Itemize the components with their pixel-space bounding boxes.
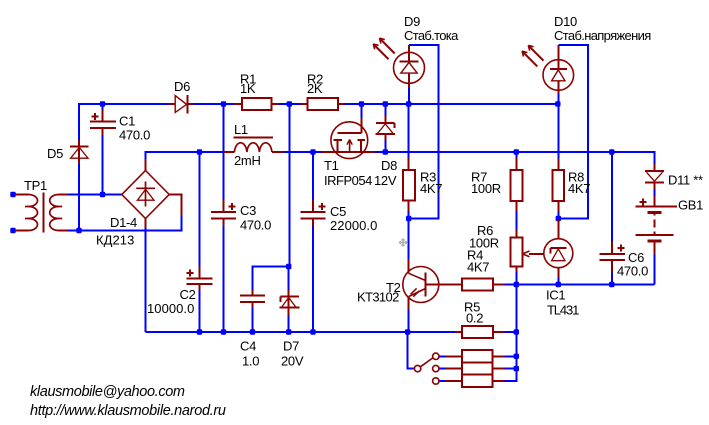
resistor R1: [233, 98, 278, 110]
node C6 top junction: [609, 149, 614, 154]
resistor R3: [403, 158, 415, 211]
node T1 gate junction: [359, 101, 364, 106]
wire switch row1 right stub: [505, 355, 517, 357]
wire bridge top stub: [145, 151, 147, 159]
wire C4 bottom: [252, 308, 254, 333]
svg-text:22000.0: 22000.0: [330, 218, 377, 233]
wire clamp horizontal y=266.5: [253, 266, 290, 268]
resistor R8: [552, 159, 564, 212]
capacitor C4: [240, 290, 265, 308]
resistor R7: [511, 158, 523, 211]
node clamp top junction: [287, 101, 292, 106]
shunt selector resistor stack: [446, 350, 505, 387]
svg-text:1.0: 1.0: [242, 354, 259, 369]
wire C1 bottom to AC top node: [102, 135, 104, 195]
svg-text:Стаб.тока: Стаб.тока: [404, 28, 459, 43]
transistor T2: [403, 259, 462, 310]
wire D8 bottom stub: [384, 141, 386, 153]
node C4 ground junction: [250, 329, 255, 334]
wire T1 gate stub: [361, 103, 363, 118]
resistor R4: [462, 278, 505, 290]
svg-text:2K: 2K: [307, 81, 323, 96]
wire T2 collector stub: [408, 219, 410, 259]
wire C2 branch bottom: [199, 290, 201, 333]
wire ground rail y=332: [146, 331, 456, 333]
svg-text:470.0: 470.0: [240, 218, 271, 233]
wire switch row3 left stub: [439, 380, 448, 382]
zener D7: [279, 290, 299, 315]
wire R7 top stub: [515, 151, 517, 158]
wire D7 top stub: [288, 268, 290, 291]
wire D9 bottom stub: [408, 88, 410, 104]
svg-text:D5: D5: [47, 146, 63, 161]
wire D10 loop: [558, 45, 588, 219]
inductor L1: [224, 138, 284, 153]
svg-text:D6: D6: [174, 79, 190, 94]
node C3 top junction: [221, 101, 226, 106]
wire left drop to D5 top: [78, 103, 80, 140]
svg-text:D9: D9: [404, 14, 420, 29]
zener D8: [376, 116, 396, 141]
node C1 bottom AC junction: [100, 192, 105, 197]
potentiometer R6: [511, 230, 545, 272]
svg-text:klausmobile@yahoo.com: klausmobile@yahoo.com: [30, 384, 185, 400]
capacitor C1: [90, 110, 116, 135]
node T2 emitter ground junction: [405, 329, 410, 334]
wire C5 branch bottom: [312, 226, 314, 333]
svg-text:2mH: 2mH: [234, 153, 261, 168]
wire AC bottom corner up to bridge right: [181, 216, 183, 232]
wire AC top (secondary top to bridge left): [67, 194, 121, 196]
wire D11 top stub: [653, 151, 655, 164]
diode D6: [169, 95, 193, 113]
wire main rail y=152 L1 to T1: [283, 151, 322, 153]
svg-text:100R: 100R: [471, 181, 501, 196]
svg-text:C1: C1: [119, 114, 135, 129]
wire D5 bottom to AC node: [78, 164, 80, 231]
node C5 ground junction: [310, 329, 315, 334]
svg-text:D10: D10: [554, 14, 577, 29]
svg-text:12V: 12V: [374, 173, 397, 188]
node D8/T1 source junction: [383, 149, 388, 154]
svg-text:КД213: КД213: [96, 233, 134, 248]
svg-text:4K7: 4K7: [467, 260, 489, 275]
MOSFET T1: [322, 118, 375, 159]
wire C6 top: [611, 151, 613, 242]
wire battery minus y=284.5: [505, 284, 655, 286]
mouse move cursor artifact: [400, 239, 407, 246]
transformer TP1: [15, 193, 67, 233]
wire T2 emitter drop: [408, 310, 410, 333]
svg-text:TL431: TL431: [547, 303, 579, 318]
wire gate clamp drop x=289.3: [288, 103, 290, 267]
selector switch SA1: [414, 353, 439, 384]
wire R3 top x=408.7: [408, 103, 410, 158]
LED D9: [373, 38, 424, 88]
node TP1 primary top terminal: [10, 192, 15, 197]
wire R7 to R6: [515, 211, 517, 230]
wire R8 column D10 to R8: [557, 94, 559, 159]
wire main rail y=152 left segment: [146, 151, 224, 153]
wire top rail y=104 left segment: [79, 103, 169, 105]
node C3 ground junction: [221, 329, 226, 334]
svg-text:4K7: 4K7: [568, 181, 590, 196]
resistor R5: [455, 326, 505, 338]
node D7 top junction: [286, 264, 291, 269]
svg-text:TP1: TP1: [24, 178, 47, 193]
wire GB1 bottom: [653, 254, 655, 284]
wire switch row2 right stub: [505, 368, 517, 370]
resistor R2: [301, 98, 345, 110]
svg-text:KT3102: KT3102: [357, 290, 399, 305]
svg-text:D8: D8: [381, 158, 397, 173]
svg-text:0.2: 0.2: [466, 311, 483, 326]
wire D9 loop: [408, 45, 439, 219]
svg-text:T1: T1: [324, 158, 339, 173]
capacitor C6: [600, 242, 625, 273]
diode D11: [645, 164, 664, 189]
diode D5: [70, 140, 89, 164]
node D10 rail end junction: [555, 101, 560, 106]
svg-text:470.0: 470.0: [617, 264, 648, 279]
wire R8 bottom stub: [557, 211, 559, 219]
node D9/R3 junction: [406, 101, 411, 106]
node IC1 anode junction: [556, 282, 561, 287]
LED D10: [522, 45, 574, 94]
node C6 bottom junction: [609, 282, 614, 287]
shunt regulator IC1: [544, 220, 573, 279]
wire C5 branch top: [312, 151, 314, 200]
node C1 top junction: [100, 101, 105, 106]
wire C4 top stub: [252, 266, 254, 291]
svg-text:http://www.klausmobile.narod.r: http://www.klausmobile.narod.ru: [30, 403, 226, 419]
node R5 right junction: [514, 329, 519, 334]
wire switch row2 left stub: [439, 368, 448, 370]
wire D8 top stub: [384, 103, 386, 116]
node C2 top junction: [197, 149, 202, 154]
wire AC bottom (secondary bottom): [67, 230, 181, 232]
node D5 AC bottom junction: [76, 228, 81, 233]
svg-text:D11 **: D11 **: [668, 173, 703, 188]
capacitor C5: [300, 200, 325, 226]
svg-text:D1-4: D1-4: [110, 215, 137, 230]
wire bridge bottom drop to ground: [145, 228, 147, 332]
node D8 top junction: [383, 101, 388, 106]
wire C2 branch top: [199, 151, 201, 267]
wire C3 branch top: [223, 103, 225, 199]
wire C1 top stub: [102, 104, 104, 110]
bridge rectifier D1-4: [122, 159, 182, 228]
node R8/D10loop/IC1 junction: [556, 216, 561, 221]
svg-text:Стаб.напряжения: Стаб.напряжения: [554, 28, 651, 43]
wire D7 bottom: [288, 315, 290, 333]
svg-text:1K: 1K: [240, 81, 256, 96]
node C5 top junction: [310, 149, 315, 154]
svg-text:GB1: GB1: [678, 198, 703, 213]
node TP1 primary bottom terminal: [10, 228, 15, 233]
node C2 ground junction: [197, 329, 202, 334]
capacitor C2: [186, 267, 212, 291]
svg-text:20V: 20V: [281, 354, 304, 369]
wire top rail y=104 segment R1 to R2: [278, 103, 300, 105]
wire C3 branch bottom: [223, 226, 225, 333]
svg-text:C3: C3: [240, 203, 256, 218]
wire D11 to GB1 stub: [653, 189, 655, 196]
wire R3 bottom stub: [408, 211, 410, 219]
svg-text:C4: C4: [240, 339, 256, 354]
wire IC1 anode stub: [557, 278, 559, 285]
svg-text:470.0: 470.0: [119, 128, 150, 143]
wire node X drop x=516.3: [505, 284, 517, 381]
svg-text:D7: D7: [283, 339, 299, 354]
svg-text:L1: L1: [234, 122, 248, 137]
svg-text:10000.0: 10000.0: [147, 301, 194, 316]
svg-text:IC1: IC1: [546, 288, 565, 303]
wire emitter node to switch pivot: [408, 331, 415, 369]
svg-text:C5: C5: [330, 204, 346, 219]
capacitor C3: [211, 199, 236, 226]
node switch row1 right junction: [514, 354, 519, 359]
wire switch row1 left stub: [439, 355, 448, 357]
node R7 top junction: [514, 149, 519, 154]
wire R6 bottom stub: [515, 272, 517, 285]
wires (blue nets): [67, 45, 654, 381]
node R3/D9loop/T2 junction: [406, 216, 411, 221]
node R4/R6/nodeX junction: [514, 282, 519, 287]
wire top rail y=104 right segment: [345, 103, 559, 105]
svg-text:C2: C2: [180, 287, 196, 302]
svg-text:4K7: 4K7: [420, 181, 442, 196]
node switch row2 right junction: [514, 366, 519, 371]
node D7 ground junction: [286, 329, 291, 334]
wire C6 bottom stub: [611, 273, 613, 285]
battery GB1: [636, 196, 677, 254]
wire ground rail R5 right to node X: [505, 331, 517, 333]
wire main rail y=152 right segment: [375, 151, 655, 153]
svg-text:IRFP054: IRFP054: [324, 173, 372, 188]
wire top rail y=104 mid segment D6 to R1: [193, 103, 233, 105]
